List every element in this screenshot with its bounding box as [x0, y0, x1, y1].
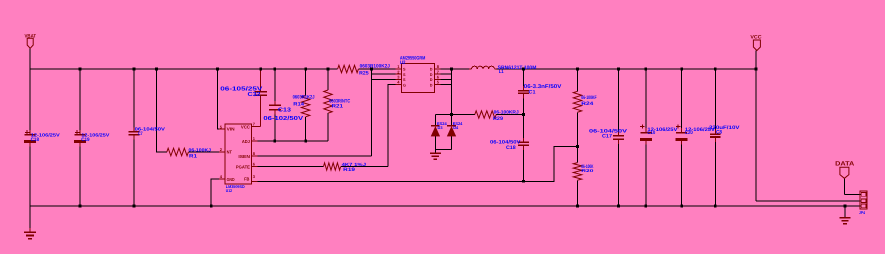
svg-text:C17: C17: [602, 133, 612, 139]
svg-text:ISEN: ISEN: [238, 154, 250, 159]
svg-text:VCC: VCC: [241, 124, 250, 129]
svg-text:0603R1K2J: 0603R1K2J: [293, 94, 315, 100]
svg-text:VCC: VCC: [750, 35, 762, 41]
svg-text:PGATE: PGATE: [236, 164, 250, 169]
svg-text:JP4: JP4: [859, 210, 866, 215]
svg-text:R29: R29: [493, 116, 503, 122]
svg-text:D: D: [430, 78, 433, 82]
svg-text:06-100KJ: 06-100KJ: [189, 147, 212, 152]
svg-text:C18: C18: [31, 137, 40, 143]
svg-text:R20: R20: [581, 168, 594, 173]
svg-text:220uF/10V: 220uF/10V: [709, 125, 740, 131]
svg-text:C8: C8: [716, 130, 722, 136]
svg-text:D: D: [430, 68, 433, 72]
svg-text:C7: C7: [138, 131, 143, 137]
svg-text:GND: GND: [227, 177, 235, 182]
svg-text:R21: R21: [332, 104, 344, 110]
svg-text:R1: R1: [189, 154, 197, 160]
svg-text:C1: C1: [529, 89, 536, 95]
svg-text:U2: U2: [400, 60, 406, 66]
svg-text:FB: FB: [244, 176, 249, 181]
svg-text:C19: C19: [81, 137, 90, 143]
svg-text:NT: NT: [227, 150, 233, 155]
svg-text:DATA: DATA: [835, 161, 855, 168]
svg-text:R24: R24: [581, 101, 593, 107]
svg-text:D4: D4: [453, 125, 459, 130]
svg-text:ADJ: ADJ: [242, 139, 251, 144]
svg-text:C10: C10: [647, 130, 655, 136]
svg-text:R25: R25: [359, 70, 369, 76]
svg-text:06-102/50V: 06-102/50V: [263, 115, 303, 122]
svg-text:D: D: [430, 83, 433, 87]
svg-text:R14: R14: [293, 101, 304, 107]
svg-text:C18: C18: [506, 145, 516, 151]
svg-text:R19: R19: [343, 167, 355, 173]
svg-text:D3: D3: [438, 125, 444, 130]
svg-text:VIN: VIN: [227, 127, 235, 132]
svg-text:U12: U12: [226, 188, 233, 193]
svg-text:D: D: [430, 73, 433, 77]
svg-text:L1: L1: [499, 69, 504, 75]
svg-text:VBAT: VBAT: [25, 33, 37, 39]
svg-text:0603R100K2J: 0603R100K2J: [360, 64, 390, 70]
svg-text:G: G: [403, 83, 406, 87]
svg-text:C32: C32: [248, 91, 261, 98]
svg-text:06-100KRJ: 06-100KRJ: [494, 110, 520, 115]
svg-text:06-100KF: 06-100KF: [581, 95, 596, 101]
svg-text:C13: C13: [278, 107, 292, 114]
svg-text:C20: C20: [685, 130, 693, 136]
